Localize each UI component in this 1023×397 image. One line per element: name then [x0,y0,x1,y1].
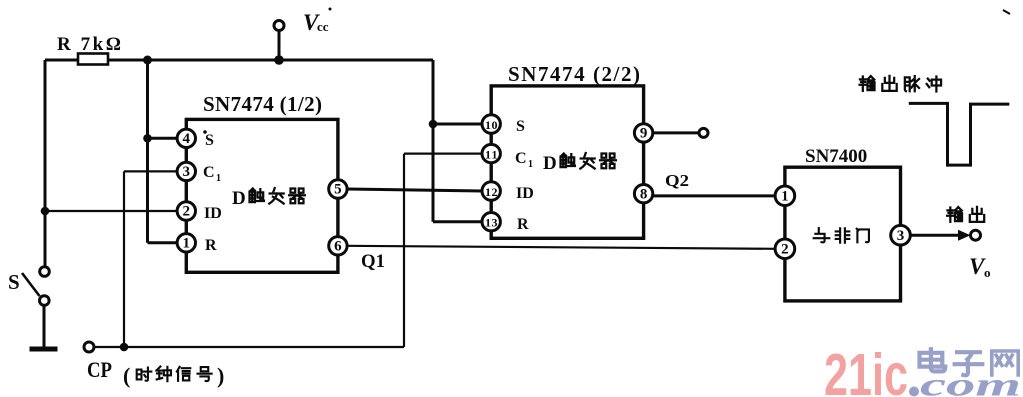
svg-text:21ic: 21ic [824,342,908,397]
svg-text:13: 13 [485,216,498,230]
svg-text:3: 3 [183,164,191,180]
svg-text:com: com [920,368,1021,397]
svg-text:ID: ID [516,185,534,202]
svg-text:ID: ID [204,205,222,222]
svg-text:1: 1 [216,173,221,184]
svg-text:S: S [516,118,525,135]
svg-text:8: 8 [640,186,648,202]
svg-text:5: 5 [334,182,342,198]
svg-text:CP: CP [87,357,112,382]
svg-text:cc: cc [317,19,329,34]
svg-text:SN7474 (2/2): SN7474 (2/2) [508,62,640,86]
svg-text:Q1: Q1 [361,251,385,272]
svg-text:D: D [543,153,557,174]
svg-text:4: 4 [183,131,191,147]
svg-text:SN7400: SN7400 [805,146,867,167]
svg-text:R: R [517,216,529,233]
svg-text:1: 1 [781,188,789,204]
svg-text:SN7474 (1/2): SN7474 (1/2) [203,92,322,116]
svg-text:2: 2 [183,204,191,220]
svg-text:1: 1 [183,235,191,251]
svg-text:R: R [205,237,217,254]
svg-text:6: 6 [334,238,342,254]
svg-text:S: S [205,132,214,149]
svg-text:2: 2 [781,241,789,257]
svg-text:Q2: Q2 [665,171,689,190]
svg-text:C: C [515,150,527,167]
svg-text:3: 3 [897,228,905,244]
svg-text:): ) [217,363,224,388]
svg-text:10: 10 [485,118,498,132]
svg-text:9: 9 [640,126,648,142]
svg-text:o: o [984,265,991,280]
svg-text:D: D [232,188,246,209]
svg-text:1: 1 [528,159,533,170]
svg-text:C: C [203,164,215,181]
svg-text:11: 11 [485,147,498,161]
svg-text:S: S [8,270,20,294]
svg-text:(: ( [123,363,130,388]
svg-text:12: 12 [485,185,498,199]
svg-text:R 7kΩ: R 7kΩ [57,34,121,55]
